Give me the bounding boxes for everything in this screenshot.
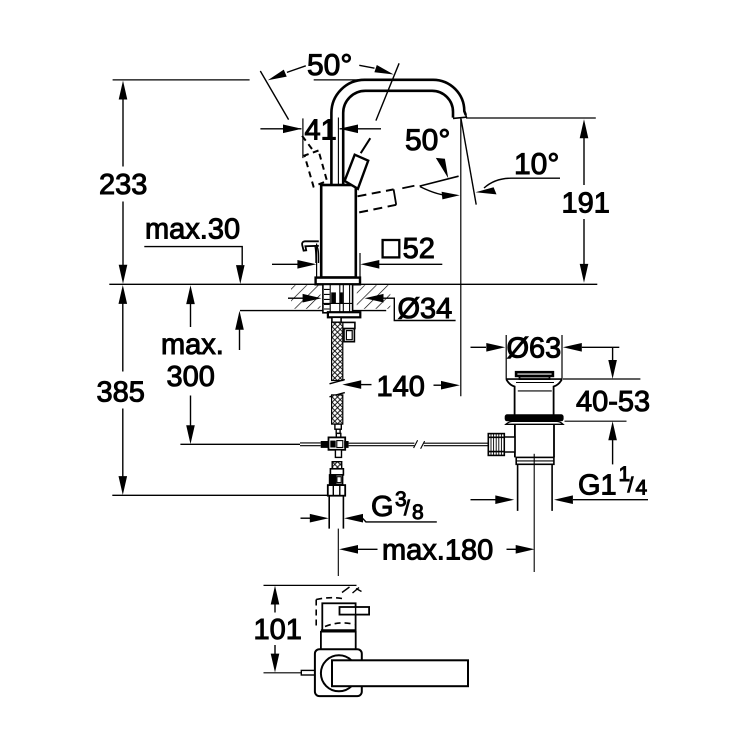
second hose connection fitting [343,322,355,341]
drain knurled knob [488,434,506,456]
svg-text:52: 52 [403,233,435,265]
lever handle solid position [345,138,371,189]
dimension 140 [342,371,460,403]
mounting horseshoe washer [328,312,360,317]
spout inner contour [343,91,453,185]
drain knob neck [504,437,515,452]
dimension 40-53 [563,347,650,464]
svg-text:G: G [371,491,394,523]
drain tailpipe [518,464,553,511]
G3/8 connection nut [328,485,345,496]
extension line outlet level to 191 dimension [466,117,596,119]
svg-text:/: / [404,497,410,520]
counter hatching right band [357,285,391,309]
svg-text:Ø63: Ø63 [507,333,562,365]
svg-text:300: 300 [167,361,215,393]
svg-text:4: 4 [636,477,648,500]
drain flange top [506,378,562,380]
spout dashed alternate position right [358,186,415,213]
swivel tangent line [420,176,459,186]
dimension square52 [272,233,442,277]
dimension max.180 [339,535,534,567]
drain pop-up plug cap [516,372,553,376]
dimension label 10 deg with leader [476,148,561,194]
dimension 41 with extension lines [260,115,381,159]
braided flex hose upper section [332,322,343,380]
svg-text:385: 385 [97,377,145,409]
faucet centerline [337,118,339,284]
svg-text:/: / [628,474,634,497]
dimension dia34 leader [288,293,456,325]
dimension 385 [97,285,328,495]
drain sealing ring (black) [505,414,564,421]
svg-text:191: 191 [562,188,610,220]
tee connector on rod [329,433,346,457]
faucet base plate [316,278,360,285]
svg-text:233: 233 [99,169,147,201]
bottom view: dashed lever raised outline [316,598,354,630]
hose end neck [335,424,341,433]
svg-text:50°: 50° [405,124,450,157]
drain collar [516,457,554,464]
wire: top reference extension line (spout top level, y=80) [113,79,365,81]
bottom view: lever handle side profile [332,660,468,686]
svg-text:50°: 50° [307,49,352,82]
bottom view: cartridge circle [321,655,357,691]
svg-text:G1: G1 [578,470,617,502]
dimension G3/8 [301,488,437,524]
bottom view: rounded square base [315,649,362,696]
lever handle dashed position [302,135,328,187]
hose coupling stack above G3/8 [330,462,344,485]
spout outlet face [453,115,466,119]
bottom view: dashed tick at extension end [342,587,362,593]
drain flange sides [506,379,514,415]
svg-text:40-53: 40-53 [576,386,650,418]
leader arrow of 50 deg lower label [436,158,449,179]
drain body below ring [515,424,554,457]
rod ferrule left [321,441,329,448]
faucet lower centerline [337,529,339,576]
svg-text:10°: 10° [514,148,559,181]
svg-text:Ø34: Ø34 [398,293,453,325]
extension line from outlet down to 140 dimension [460,119,462,397]
G3/8 threaded pipe [329,496,343,529]
bottom view: top extension line [264,584,357,586]
drain: dimension dia63 [471,333,620,380]
10 deg spout direction slant line [461,119,476,205]
spout outer contour [331,80,465,185]
svg-text:8: 8 [412,501,424,524]
pop-up rod right section with break [349,440,490,449]
pop-up rod left section [180,443,300,445]
counter hatching left band [291,285,321,309]
pop-up rod knob at rear of body [302,241,319,250]
mounting shank below counter [323,284,353,312]
braided flex hose lower section [332,395,343,424]
faucet body [321,185,356,278]
drain ring lower lip [506,421,563,424]
svg-text:101: 101 [254,614,302,646]
counter top line [109,283,597,285]
drain centerline [533,454,535,572]
bottom view: rear pin [301,670,316,675]
svg-text:max.: max. [161,329,224,361]
wire: swivel extent slant line right [376,63,399,120]
bottom view: lever bar [340,607,370,615]
dimension G1 1/4 [471,463,649,504]
swivel arc with arrowhead [420,187,460,200]
svg-text:max.30: max.30 [145,214,240,246]
dimension 233 [99,81,147,284]
bottom view: mid section sides [321,631,356,649]
wire: swivel extent slant line left [260,71,288,120]
dimension label 50 deg upper [268,49,394,82]
svg-text:max.180: max.180 [382,535,493,567]
hose break marks [330,380,345,397]
bottom view: thick shoulder line [321,629,356,632]
pop-up rod neck curves [315,246,319,263]
dimension max.30 [144,214,244,351]
dimension max.300 [161,285,224,444]
bottom view: spout block [322,603,355,630]
counter bottom line [240,310,386,312]
rod ferrule right [344,441,348,448]
drain flange detail lines [516,383,554,391]
dimension 101 [254,586,306,673]
dimension 191 [562,119,610,282]
svg-text:140: 140 [377,371,425,403]
hose crimp sleeve [332,317,341,322]
